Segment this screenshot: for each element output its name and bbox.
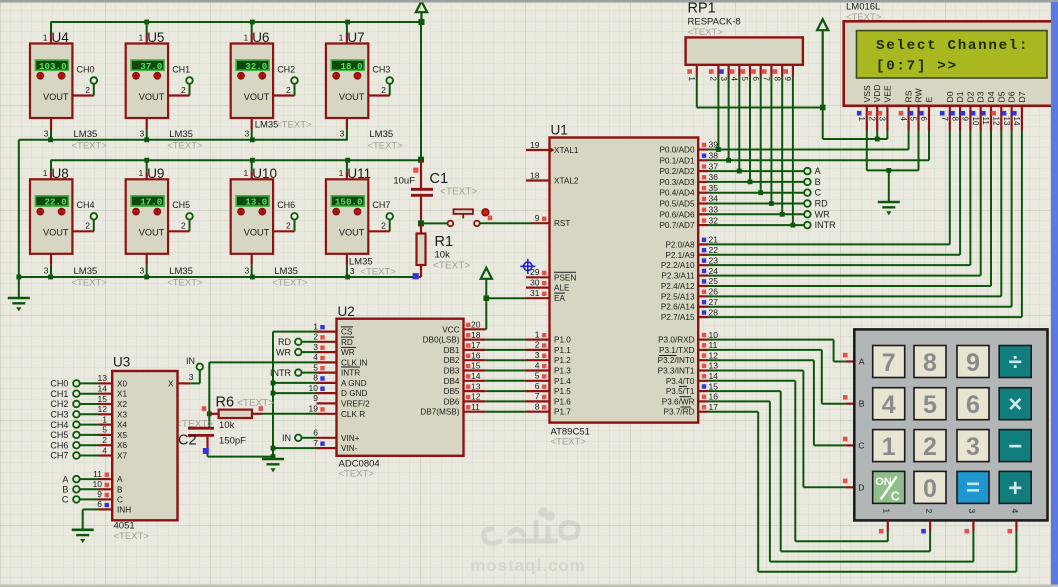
wire +5V vertical to C1 (420, 22, 422, 160)
svg-text:13: 13 (471, 381, 481, 391)
svg-text:21: 21 (709, 235, 719, 245)
wire C2 to ground (208, 456, 274, 458)
svg-text:5: 5 (535, 371, 540, 381)
svg-text:<TEXT>: <TEXT> (167, 140, 203, 151)
svg-text:RESPACK-8: RESPACK-8 (688, 17, 741, 28)
svg-text:VIN-: VIN- (341, 444, 358, 453)
svg-text:17.0: 17.0 (140, 197, 162, 208)
svg-text:CH1: CH1 (50, 389, 68, 399)
net P0.3 to terminal B (708, 181, 804, 183)
svg-text:8: 8 (535, 402, 540, 412)
svg-text:LM35: LM35 (255, 119, 279, 130)
svg-text:1: 1 (138, 168, 143, 178)
svg-text:26: 26 (709, 287, 719, 297)
svg-text:3: 3 (139, 266, 144, 276)
wire RP1 pin1 to +5V (696, 77, 698, 108)
U2 pin 13 DB5 (464, 390, 486, 392)
nets P2.0-P2.7 to LCD D0-D7 (708, 243, 950, 245)
svg-text:P3.1/TXD: P3.1/TXD (659, 346, 695, 355)
svg-text:9: 9 (97, 489, 102, 499)
svg-text:32.0: 32.0 (245, 61, 267, 72)
svg-text:X1: X1 (117, 390, 127, 399)
svg-text:<TEXT>: <TEXT> (114, 531, 150, 542)
wire pin3 U4 (50, 118, 52, 129)
svg-text:<TEXT>: <TEXT> (551, 437, 587, 448)
svg-text:12: 12 (98, 404, 108, 414)
svg-text:D4: D4 (986, 91, 996, 102)
keypad button equals (957, 471, 989, 503)
RP1 pin 3 (727, 65, 729, 77)
svg-text:11: 11 (471, 402, 480, 412)
svg-text:A: A (859, 357, 865, 367)
svg-text:1: 1 (102, 414, 107, 424)
push button (reset) (421, 222, 447, 224)
svg-text:35: 35 (709, 183, 719, 193)
svg-text:XTAL2: XTAL2 (554, 177, 579, 186)
svg-text:1: 1 (857, 117, 866, 122)
keypad KEYPAD-CALC (854, 329, 1047, 520)
svg-text:DB0(LSB): DB0(LSB) (423, 336, 460, 345)
U3 pin X7 terminal CH7 (73, 452, 80, 459)
svg-text:B: B (62, 485, 68, 495)
LCD pin 3 VEE (886, 106, 888, 131)
svg-text:VOUT: VOUT (339, 92, 365, 102)
svg-text:6: 6 (313, 428, 318, 438)
svg-text:mostaql.com: mostaql.com (470, 556, 586, 575)
svg-text:LM35: LM35 (169, 129, 193, 140)
svg-text:CH4: CH4 (77, 200, 95, 210)
svg-text:25: 25 (709, 276, 719, 286)
U1 port2 pins 21-28 (698, 243, 708, 245)
svg-text:3: 3 (189, 372, 194, 382)
pin 2 and terminal CH6 of U10 (273, 230, 294, 232)
svg-text:14: 14 (98, 384, 108, 394)
pin 2 and terminal CH0 of U4 (72, 94, 93, 96)
svg-text:CH7: CH7 (372, 200, 390, 210)
svg-text:20: 20 (471, 320, 481, 330)
svg-text:VOUT: VOUT (139, 92, 165, 102)
svg-text:2: 2 (381, 221, 386, 231)
svg-text:28: 28 (709, 307, 719, 317)
svg-text:C1: C1 (430, 171, 449, 187)
U2 pin 3 WR (317, 351, 337, 353)
svg-text:2: 2 (286, 221, 291, 231)
temperature sensor U9 (LM35) (146, 171, 148, 179)
RP1 pin 5 (749, 65, 751, 77)
keypad button 9 (957, 346, 989, 378)
svg-text:U11: U11 (347, 166, 371, 181)
wire +5V down to VDD/VEE (822, 108, 824, 140)
ground symbol LCD (878, 201, 900, 204)
svg-text:4: 4 (882, 391, 896, 419)
U3 pin X1 terminal CH1 (73, 390, 80, 397)
svg-text:3: 3 (313, 342, 318, 352)
net P0.6 to terminal WR (708, 213, 804, 215)
svg-text:32: 32 (709, 215, 719, 225)
svg-text:14: 14 (709, 371, 719, 381)
svg-text:5: 5 (313, 362, 318, 372)
U2 pin 10 D GND (317, 392, 337, 394)
svg-text:D GND: D GND (341, 389, 367, 398)
svg-text:<TEXT>: <TEXT> (276, 119, 312, 130)
LCD pin 8 D1 (959, 106, 961, 131)
svg-text:P0.3/AD3: P0.3/AD3 (659, 178, 694, 187)
svg-text:P1.2: P1.2 (554, 356, 571, 365)
svg-text:VIN+: VIN+ (341, 434, 360, 443)
svg-text:LM016L: LM016L (846, 2, 880, 13)
svg-text:CH5: CH5 (172, 200, 190, 210)
net P0.5 to terminal RD (708, 203, 804, 205)
wire pin1 U5 (146, 22, 148, 33)
svg-text:RST: RST (554, 219, 570, 228)
svg-text:RP1: RP1 (688, 1, 716, 17)
svg-text:P0.0/AD0: P0.0/AD0 (659, 146, 694, 155)
power symbol +5V LCD (817, 19, 828, 30)
svg-text:1: 1 (687, 77, 696, 82)
svg-text:ALE: ALE (554, 284, 570, 293)
keypad button 6 (957, 388, 989, 420)
svg-text:P1.3: P1.3 (554, 367, 571, 376)
svg-text:<TEXT>: <TEXT> (167, 278, 203, 289)
svg-text:10: 10 (709, 330, 719, 340)
svg-text:4051: 4051 (114, 521, 135, 532)
RP1 pin 4 (738, 65, 740, 77)
svg-text:<TEXT>: <TEXT> (433, 261, 470, 272)
svg-text:IN: IN (186, 356, 195, 366)
svg-text:5: 5 (909, 117, 918, 122)
svg-text:2: 2 (286, 85, 291, 95)
svg-text:7: 7 (940, 117, 949, 122)
svg-text:RD: RD (815, 199, 828, 209)
wire +5V to U2 VCC (485, 298, 487, 329)
U3 pin 10 B (73, 486, 80, 493)
svg-text:4: 4 (730, 77, 739, 82)
wire pin1 U11 (346, 160, 348, 171)
RP1 pin 9 (792, 65, 794, 77)
svg-text:10uF: 10uF (393, 176, 415, 187)
svg-text:CLK R: CLK R (341, 410, 365, 419)
resistor R6 10k (209, 413, 218, 415)
window border (0, 0, 1058, 3)
U2 pin 1 CS (317, 331, 337, 333)
svg-text:13: 13 (709, 361, 719, 371)
svg-text:PSEN: PSEN (554, 273, 576, 282)
svg-text:16: 16 (709, 392, 719, 402)
svg-text:X0: X0 (117, 379, 127, 388)
multiplexer U3 4051 (112, 371, 177, 520)
svg-text:103.0: 103.0 (39, 61, 67, 72)
U2 pin 6 VIN+ (317, 437, 337, 439)
wire pin3 U9 (146, 254, 148, 265)
svg-text:6: 6 (535, 381, 540, 391)
svg-text:8: 8 (313, 373, 318, 383)
svg-text:U7: U7 (347, 30, 364, 45)
wire pin1 U9 (146, 160, 148, 171)
keypad button minus (999, 430, 1031, 462)
svg-text:<TEXT>: <TEXT> (237, 398, 274, 409)
svg-text:7: 7 (882, 349, 896, 377)
svg-text:VSS: VSS (862, 85, 872, 102)
wire D GND (273, 392, 317, 394)
wire button to RST (480, 222, 531, 224)
svg-text:1: 1 (535, 329, 540, 339)
svg-text:37: 37 (709, 161, 719, 171)
svg-text:U4: U4 (52, 30, 70, 45)
svg-text:÷: ÷ (1009, 349, 1022, 376)
svg-text:18: 18 (530, 170, 540, 180)
svg-text:X3: X3 (117, 410, 127, 419)
svg-text:150pF: 150pF (219, 436, 246, 447)
LCD pin 12 D5 (1000, 106, 1002, 131)
wire INH to ground (83, 508, 99, 510)
svg-text:RD: RD (341, 338, 353, 347)
U2 pin 17 DB1 (464, 349, 486, 351)
svg-text:3: 3 (340, 128, 345, 138)
svg-text:1: 1 (313, 321, 318, 331)
svg-text:CLK IN: CLK IN (341, 358, 367, 367)
svg-text:R1: R1 (435, 234, 454, 250)
wire EA to +5V (486, 297, 526, 299)
ground bus row1 (19, 139, 348, 141)
keypad button 3 (957, 430, 989, 462)
U2 pin 9 VREF/2 (317, 402, 337, 404)
svg-text:4: 4 (313, 352, 318, 362)
svg-text:VOUT: VOUT (139, 228, 165, 238)
U3 pin X2 terminal CH2 (73, 401, 80, 408)
power bus top (+5V rail row1) (51, 21, 422, 23)
keypad button ON/C (873, 471, 905, 503)
net P0.7 to terminal INTR (708, 224, 804, 226)
pin 2 and terminal CH5 of U9 (168, 230, 189, 232)
svg-text:VDD: VDD (872, 84, 882, 102)
wire pin3 U6 (251, 118, 253, 129)
U2 pin 12 DB6 (464, 400, 486, 402)
svg-text:150.0: 150.0 (335, 197, 363, 208)
svg-text:B: B (859, 399, 865, 409)
svg-text:A GND: A GND (341, 379, 367, 388)
microcontroller U1 AT89C51 (550, 138, 699, 423)
svg-text:E: E (924, 97, 934, 103)
svg-text:C: C (62, 495, 69, 505)
net P0.4 to terminal C (708, 192, 804, 194)
svg-text:D3: D3 (976, 91, 986, 102)
svg-text:P0.2/AD2: P0.2/AD2 (659, 167, 694, 176)
svg-text:C: C (815, 188, 822, 198)
svg-text:R6: R6 (216, 395, 235, 411)
svg-text:X: X (168, 380, 174, 389)
LCD pin 7 D0 (949, 106, 951, 131)
svg-text:17: 17 (471, 340, 481, 350)
svg-text:B: B (815, 177, 821, 187)
power bus row2 (+5V) (51, 159, 422, 161)
svg-text:CH2: CH2 (277, 64, 295, 74)
svg-text:10: 10 (309, 383, 319, 393)
svg-text:P2.0/A8: P2.0/A8 (665, 240, 695, 249)
LCD pin 2 VDD (876, 106, 878, 131)
svg-text:2: 2 (709, 77, 718, 82)
wire pin1 U8 (50, 160, 52, 171)
U2 pin 4 CLK IN (317, 361, 337, 363)
svg-text:<TEXT>: <TEXT> (72, 140, 108, 151)
wires U2 DB0-DB7 to U1 P1.0-P1.7 (485, 339, 526, 341)
svg-text:34: 34 (709, 194, 719, 204)
svg-text:INTR: INTR (341, 369, 360, 378)
capacitor C1 10uF (413, 168, 418, 173)
temperature sensor U7 (LM35) (346, 33, 348, 44)
svg-text:P2.7/A15: P2.7/A15 (661, 313, 695, 322)
svg-text:CS: CS (341, 328, 353, 337)
svg-text:VOUT: VOUT (43, 228, 69, 238)
wire pin3 U5 (146, 118, 148, 129)
svg-text:LM35: LM35 (74, 266, 98, 277)
wire pin3 U7 (346, 118, 348, 129)
svg-text:5: 5 (740, 77, 749, 82)
U3 pin X3 terminal CH3 (73, 411, 80, 418)
svg-text:12: 12 (992, 117, 1001, 126)
svg-text:A: A (62, 474, 68, 484)
svg-text:DB5: DB5 (444, 387, 460, 396)
svg-text:P1.4: P1.4 (554, 377, 571, 386)
svg-text:C: C (858, 440, 864, 450)
svg-text:D1: D1 (955, 91, 965, 102)
svg-text:3: 3 (966, 433, 980, 461)
svg-text:11: 11 (93, 469, 102, 479)
left vertical ground wire (18, 140, 20, 277)
svg-text:19: 19 (309, 404, 319, 414)
svg-text:P2.1/A9: P2.1/A9 (665, 251, 695, 260)
U3 pin 6 INH (99, 508, 113, 510)
U1 pin XTAL2 18 (526, 179, 550, 181)
net P0.2 to terminal A (708, 170, 804, 172)
temperature sensor U4 (LM35) (50, 33, 52, 44)
svg-text:6: 6 (919, 117, 928, 122)
svg-text:P1.7: P1.7 (554, 408, 571, 417)
svg-text:RS: RS (904, 90, 914, 102)
svg-text:27: 27 (709, 297, 719, 307)
svg-text:CH4: CH4 (50, 420, 68, 430)
svg-text:2: 2 (85, 85, 90, 95)
svg-text:P3.5/T1: P3.5/T1 (666, 387, 695, 396)
svg-text:D2: D2 (965, 91, 975, 102)
wire CLK IN to R6 C2 node (209, 361, 316, 363)
keypad button 4 (873, 388, 905, 420)
svg-text:3: 3 (244, 266, 249, 276)
svg-text:P2.2/A10: P2.2/A10 (661, 261, 695, 270)
RP1 pin 7 (770, 65, 772, 77)
svg-text:C: C (891, 489, 900, 503)
svg-text:6: 6 (966, 391, 980, 419)
svg-text:RW: RW (914, 87, 924, 102)
svg-text:18: 18 (471, 330, 481, 340)
svg-text:3: 3 (719, 77, 728, 82)
ADC U2 ADC0804 (337, 319, 464, 456)
svg-text:D5: D5 (996, 91, 1006, 102)
power symbol +5V top (416, 1, 427, 12)
terminal IN at U2 VIN+ (295, 435, 302, 442)
U1 pin ALE 30 (526, 287, 550, 289)
svg-text:CH2: CH2 (50, 399, 68, 409)
junction dots top bus (144, 20, 149, 25)
svg-text:8: 8 (950, 117, 959, 122)
svg-text:CH3: CH3 (372, 64, 390, 74)
svg-text:P1.1: P1.1 (554, 346, 571, 355)
svg-text:DB3: DB3 (444, 367, 460, 376)
svg-text:37.0: 37.0 (140, 61, 162, 72)
svg-text:P0.4/AD4: P0.4/AD4 (659, 189, 694, 198)
svg-text:P3.3/INT1: P3.3/INT1 (658, 367, 695, 376)
svg-text:U10: U10 (252, 166, 277, 181)
svg-text:8: 8 (772, 77, 781, 82)
svg-text:13: 13 (98, 373, 108, 383)
svg-text:30: 30 (530, 277, 540, 287)
keypad button divide (999, 346, 1031, 378)
wire VIN- (273, 447, 317, 449)
svg-text:2: 2 (535, 340, 540, 350)
svg-text:EA: EA (554, 294, 565, 303)
svg-text:P3.6/WR: P3.6/WR (662, 397, 695, 406)
pin 2 and terminal CH3 of U7 (368, 94, 389, 96)
svg-text:CH5: CH5 (50, 430, 68, 440)
U2 pin 16 DB2 (464, 359, 486, 361)
svg-text:=: = (966, 474, 980, 501)
resistor R1 10k (420, 223, 422, 233)
nets P3.4-P3.7 to keypad columns (708, 380, 795, 382)
svg-text:U6: U6 (252, 30, 269, 45)
LCD pin 14 D7 (1021, 106, 1023, 131)
svg-text:LM35: LM35 (169, 266, 193, 277)
U2 pin 2 RD (317, 341, 337, 343)
svg-text:10: 10 (971, 117, 980, 126)
svg-text:P2.6/A14: P2.6/A14 (661, 303, 695, 312)
svg-text:9: 9 (535, 213, 540, 223)
wire pin3 U10 (251, 254, 253, 265)
svg-text:P2.3/A11: P2.3/A11 (661, 272, 695, 281)
wire R6 to CLK R (262, 413, 317, 415)
svg-text:3: 3 (878, 117, 887, 122)
watermark (484, 510, 579, 544)
svg-text:10k: 10k (219, 420, 235, 431)
svg-text:15: 15 (709, 381, 719, 391)
wire pin3 U8 (50, 254, 52, 265)
svg-text:14: 14 (471, 371, 481, 381)
LCD pin 5 RW (917, 106, 919, 131)
svg-text:P1.5: P1.5 (554, 387, 571, 396)
terminal WR at U2 (295, 349, 302, 356)
U3 pin 9 C (73, 496, 80, 503)
U2 pin 14 DB4 (464, 380, 486, 382)
svg-text:12: 12 (471, 392, 481, 402)
svg-text:13.0: 13.0 (245, 197, 267, 208)
wire VSS RW to ground (866, 131, 868, 171)
no-connect marker blue at R1 bottom (413, 273, 419, 279)
temperature sensor U6 (LM35) (251, 33, 253, 44)
origin marker crosshair (520, 259, 535, 274)
svg-text:1: 1 (339, 32, 344, 42)
svg-text:A: A (117, 475, 123, 484)
svg-text:P1.0: P1.0 (554, 336, 571, 345)
svg-text:1: 1 (43, 168, 48, 178)
svg-text:VOUT: VOUT (43, 92, 69, 102)
svg-text:<TEXT>: <TEXT> (367, 140, 403, 151)
svg-text:4: 4 (1010, 509, 1020, 514)
svg-text:VEE: VEE (882, 85, 892, 102)
svg-text:A: A (815, 166, 821, 176)
U2 pin 19 CLK R (317, 413, 337, 415)
keypad button 5 (914, 388, 946, 420)
svg-text:WR: WR (276, 347, 291, 357)
svg-text:4: 4 (102, 445, 107, 455)
svg-text:LM35: LM35 (74, 129, 98, 140)
